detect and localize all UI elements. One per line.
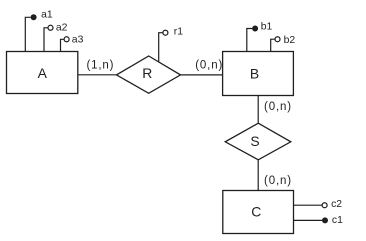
svg-text:R: R: [142, 65, 152, 81]
svg-text:(1,n): (1,n): [86, 60, 114, 72]
svg-text:(0,n): (0,n): [195, 60, 223, 72]
svg-text:(0,n): (0,n): [264, 175, 292, 187]
svg-text:B: B: [250, 65, 259, 81]
svg-text:C: C: [251, 203, 261, 219]
svg-text:b1: b1: [261, 22, 273, 33]
svg-text:a1: a1: [41, 10, 53, 21]
svg-text:A: A: [38, 65, 48, 81]
svg-text:c2: c2: [331, 199, 342, 210]
svg-text:r1: r1: [174, 27, 183, 38]
svg-text:c1: c1: [332, 215, 343, 226]
svg-text:b2: b2: [284, 35, 296, 46]
svg-text:(0,n): (0,n): [264, 101, 292, 113]
svg-text:a2: a2: [56, 22, 68, 33]
svg-text:S: S: [250, 133, 259, 149]
svg-text:a3: a3: [72, 35, 84, 46]
